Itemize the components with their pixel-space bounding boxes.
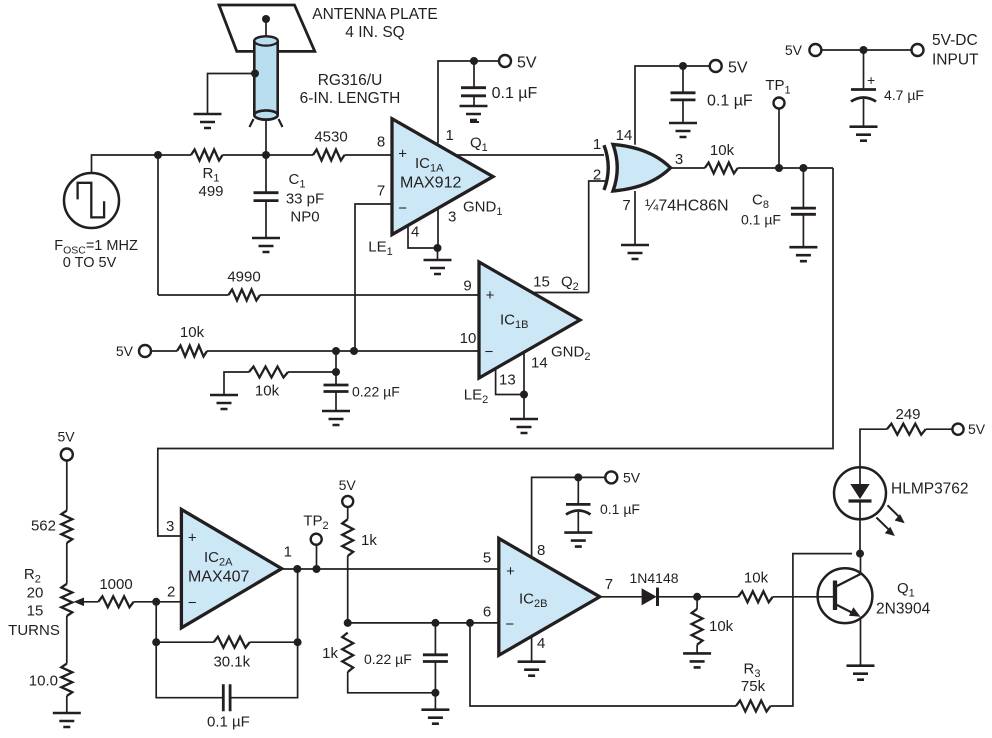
svg-text:NP0: NP0 [290,209,319,226]
node collector/LED [856,550,864,558]
XOR pin 7 ground [634,191,636,245]
ground (10k) [210,395,238,409]
svg-text:7: 7 [622,197,630,214]
svg-text:0.1 µF: 0.1 µF [207,714,250,731]
svg-text:+: + [506,563,515,580]
svg-text:9: 9 [463,278,471,295]
svg-text:3: 3 [675,151,683,168]
oscillator source Fosc [64,173,119,228]
svg-text:5V: 5V [728,60,748,77]
svg-text:2N3904: 2N3904 [876,601,931,618]
5V terminal [710,60,722,72]
5V input: terminals and 4.7uF [809,44,821,56]
svg-text:1N4148: 1N4148 [629,570,678,586]
svg-text:15: 15 [533,274,550,291]
antenna plate [219,5,315,51]
svg-text:10: 10 [460,330,477,347]
resistor 1k (upper) [342,519,353,556]
resistor 10k (pulldown) [696,597,698,609]
svg-text:4.7 µF: 4.7 µF [884,87,924,103]
ground (bypass XOR) [669,123,697,137]
svg-text:5V: 5V [57,429,75,445]
svg-text:10k: 10k [744,569,769,586]
svg-text:4: 4 [411,224,419,241]
svg-text:+: + [486,287,495,304]
svg-text:0.22 µF: 0.22 µF [364,651,412,667]
IC2A output wire [282,568,499,570]
svg-text:1k: 1k [322,645,338,662]
svg-text:20: 20 [27,584,44,601]
wire shield to ground [208,74,256,115]
svg-text:RG316/U: RG316/U [318,72,383,89]
resistor R1 499 [191,150,223,161]
potentiometer R2 [61,584,72,616]
resistor 10k (XOR out) [705,163,738,174]
node [434,244,442,252]
svg-text:8: 8 [537,542,545,559]
svg-text:TURNS: TURNS [8,622,60,639]
svg-text:3: 3 [166,518,174,535]
bypass capacitor 0.1uF (IC2B) [577,477,579,504]
svg-text:10k: 10k [709,618,734,635]
resistor 4990 [158,294,229,296]
svg-text:499: 499 [198,183,223,200]
svg-text:−: − [505,616,514,633]
svg-text:13: 13 [499,372,516,389]
ground (C8) [789,247,817,261]
ground (C1) [252,238,280,252]
svg-text:6-IN. LENGTH: 6-IN. LENGTH [300,90,401,107]
Q2 output wire [534,292,589,294]
svg-text:0.1 µF: 0.1 µF [707,93,753,110]
svg-text:5: 5 [483,550,491,567]
resistor 562 [61,511,72,543]
svg-text:5V: 5V [785,42,803,58]
svg-text:0.1 µF: 0.1 µF [741,211,781,227]
svg-text:15: 15 [27,603,44,620]
svg-text:−: − [485,344,494,361]
IC1B pin 14 [523,352,525,394]
svg-text:14: 14 [616,127,633,144]
XOR pin 2 wire from Q2 [589,181,605,293]
svg-text:5V: 5V [517,55,537,72]
ground (10k pulldown) [683,653,711,667]
svg-text:1: 1 [446,127,454,144]
svg-text:562: 562 [31,518,56,535]
svg-text:4: 4 [537,635,545,652]
comparator IC2B [499,538,600,655]
svg-text:14: 14 [531,355,548,372]
capacitor C1 33pF [265,155,267,193]
5V terminal [499,55,511,67]
5V terminal (10k divider) [139,345,151,357]
wire R3 feedback [470,623,736,706]
ground (0.22uF) [322,411,350,425]
svg-text:0.22 µF: 0.22 µF [352,384,400,400]
IC1A pin 7 wire [355,204,392,351]
capacitor 0.1uF (feedback) [223,684,230,711]
wire to IC1A pin 8 [345,154,393,156]
coax cable RG316/U [254,36,277,119]
svg-text:5V: 5V [623,469,641,485]
IC1A pin 3 [437,209,439,248]
node A2 [262,151,270,159]
ground (0.22uF ref) [421,710,449,724]
ground (coax shield) [194,114,222,128]
XOR pin 14 supply [635,66,709,145]
bypass capacitor 0.1uF (XOR) [682,66,684,93]
label Q1-bar output [470,121,479,123]
svg-text:2: 2 [167,584,175,601]
svg-text:10k: 10k [255,382,280,399]
IC1A pin 1 supply [438,61,499,143]
node [470,57,478,65]
svg-text:4990: 4990 [227,269,260,286]
wire oscillator to node [92,155,159,173]
feedback wire right side down [158,168,833,536]
5V terminal (LED) [952,424,963,435]
wire [265,19,267,36]
wire oscillator node down to 4990 [157,155,159,295]
IC1B pin 13 LE2 [496,369,524,395]
ground (bypass IC1A) [460,106,488,120]
ground (4.7uF) [850,127,878,141]
electrolytic capacitor 4.7uF [863,50,865,90]
svg-text:30.1k: 30.1k [213,654,250,671]
svg-text:4530: 4530 [314,129,347,146]
XOR output wire [671,167,705,169]
resistor 30.1k [214,637,250,648]
feedback path: 30.1k [156,602,223,698]
ground (bypass IC2B) [564,533,592,547]
ground (emitter) [847,666,875,680]
capacitor C8 0.1uF [799,164,807,172]
XOR gate 1/4 74HC86N [604,145,608,190]
node R3 tap [466,619,474,627]
ground (pot chain) [53,713,81,727]
svg-text:1: 1 [284,544,292,561]
svg-text:MAX407: MAX407 [188,569,249,586]
IC2B output [600,596,642,598]
test point TP2 [316,545,318,569]
5V terminal (1k) [342,496,353,507]
op-amp IC2A MAX407 [181,509,281,627]
node: antenna feed dot [262,15,270,23]
ground (IC1A) [424,260,452,274]
LED light arrows [888,505,899,516]
svg-text:+: + [398,146,407,163]
IC2B pin 4 ground [531,636,533,661]
svg-text:5V: 5V [339,477,357,493]
bypass capacitor 0.1uF (IC1A) [473,61,475,88]
svg-text:7: 7 [377,183,385,200]
resistor 10k (to ground) [288,371,336,373]
svg-text:0 TO 5V: 0 TO 5V [63,255,117,271]
wire coax to C1 node [265,119,267,155]
svg-text:10.0: 10.0 [29,673,58,690]
svg-text:8: 8 [377,134,385,151]
svg-text:33 pF: 33 pF [286,191,324,208]
ground (IC1B) [510,419,538,433]
svg-text:+: + [188,529,197,546]
node [520,391,528,399]
svg-text:HLMP3762: HLMP3762 [891,481,969,498]
svg-text:5V-DC: 5V-DC [932,32,978,49]
svg-text:5V: 5V [116,343,134,359]
capacitor 0.22uF [335,372,337,385]
svg-text:10k: 10k [710,142,735,159]
svg-text:−: − [188,594,197,611]
LED HLMP3762 [859,519,861,553]
svg-text:6: 6 [483,603,491,620]
op-amp/comparator IC1A MAX912 [392,119,493,235]
svg-text:75k: 75k [741,678,766,695]
node pin6 [344,619,352,627]
svg-text:249: 249 [895,406,920,423]
5V-DC INPUT terminal [912,44,924,56]
svg-text:MAX912: MAX912 [400,175,461,192]
svg-text:INPUT: INPUT [932,52,979,69]
IC2B pin 8 supply [532,477,606,557]
transistor Q1 2N3904 [818,568,873,623]
resistor R3 75k [736,701,771,712]
svg-text:5V: 5V [968,421,986,437]
capacitor 0.22uF (ref) [431,619,439,627]
5V terminal (IC2B) [605,471,617,483]
IC1A pin 4 LE1 [408,226,438,248]
svg-text:1000: 1000 [99,576,132,593]
wire [223,154,313,156]
wire [158,154,191,156]
5V terminal (pot chain) [61,449,73,461]
node A1 [154,151,162,159]
resistor 249 [860,429,887,467]
svg-text:+: + [867,72,875,88]
svg-text:¼74HC86N: ¼74HC86N [645,198,729,215]
wire node down [335,351,337,372]
svg-text:4 IN. SQ: 4 IN. SQ [345,24,404,41]
resistor 1000 (pot wiper) [82,601,98,603]
node [152,598,160,606]
svg-text:0.1 µF: 0.1 µF [600,501,640,517]
resistor 4530 [313,150,345,161]
node [332,347,340,355]
svg-text:10k: 10k [180,324,205,341]
comparator IC1B [479,262,580,378]
svg-text:3: 3 [448,209,456,226]
svg-text:ANTENNA PLATE: ANTENNA PLATE [312,6,437,23]
node [693,593,701,601]
svg-text:1k: 1k [361,532,377,549]
test point TP1 [775,164,783,172]
resistor 10k (to 5V) [177,346,207,357]
node [679,62,687,70]
resistor 10.0 [61,664,72,696]
resistor 10k (base) [697,596,738,598]
resistor 1k (lower) [342,633,353,672]
wire Q1 output to XOR pin 1 [458,154,605,156]
svg-text:−: − [398,200,407,217]
diode 1N4148 [642,588,657,605]
node: coax shield dot [251,70,259,78]
svg-text:1: 1 [593,136,601,153]
svg-text:0.1 µF: 0.1 µF [492,85,538,102]
svg-text:7: 7 [605,576,613,593]
